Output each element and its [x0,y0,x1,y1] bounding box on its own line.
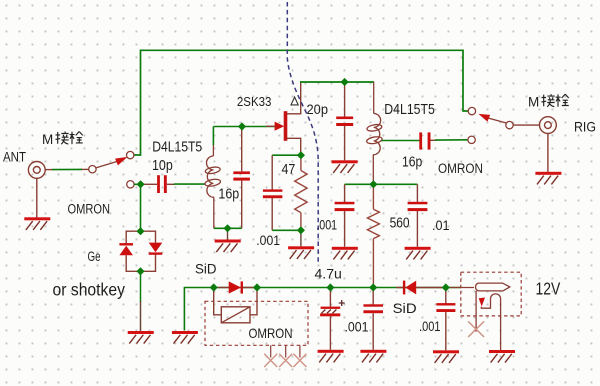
ground (4.7u) [318,350,344,363]
wire L2 tap to 16p [382,140,420,142]
node Ge top junction [136,227,144,235]
ground (input tank) [215,240,241,253]
capacitor C7 .01 [408,184,428,247]
capacitor C5 16p (output) [419,132,436,149]
label M接栓 (left) [42,132,83,148]
capacitor C4 20p [336,82,353,160]
drain marker triangle [291,97,298,105]
connector J2 RIG (M receptacle) [540,117,557,172]
node 4.7u junction [326,283,334,291]
diode D3 SiD (flyback) [218,281,257,293]
RX/TX boundary dashed curve [287,2,318,264]
relay unused contacts ticks [271,345,300,357]
relay unused contact X marks [264,354,306,367]
node relay junction right [253,283,261,291]
svg-text:12V: 12V [536,278,561,298]
svg-text:M: M [528,95,539,110]
12V plug unused X mark [468,321,484,337]
node supply rail junction (560) [369,180,377,188]
wire to source ground [300,230,302,246]
svg-text:560: 560 [390,215,410,231]
wire switch pole to RIG connector [513,124,539,126]
12V plug arrow contact [479,298,485,307]
ground (.01) [405,247,431,260]
12V plug body [450,283,510,291]
svg-text:10p: 10p [152,158,173,174]
svg-text:OMRON: OMRON [249,326,293,341]
ground (C10) [433,350,459,363]
12V power plug dashed enclosure [461,272,521,316]
svg-text:OMRON: OMRON [438,161,483,176]
wire lower throw to 10p node [134,183,141,185]
ground (20p) [332,160,358,173]
svg-text:SiD: SiD [195,261,217,276]
svg-text:Ge: Ge [88,249,101,264]
wire 16p to switch S2 [435,139,468,141]
wire supply node rail [345,183,418,185]
ground (rail left end) [172,331,198,344]
capacitor C6 .001 (drain decoupling) [335,184,355,247]
wire source to bias network [272,154,301,156]
svg-text:.001: .001 [345,319,369,334]
svg-text:SiD: SiD [393,301,417,316]
relay K1 coil [214,288,257,323]
wire drain rail [300,81,374,83]
wire L1 top to gate rail [212,127,214,146]
wire Ge bottom to ground [140,271,142,302]
wire top bypass rail [134,50,468,155]
svg-text:16p: 16p [402,155,422,171]
resistor R2 560 [367,184,379,287]
wire ANT to switch pole [52,168,82,170]
capacitor C3 .001 (source bypass) [263,155,283,230]
svg-text:20p: 20p [307,101,329,117]
svg-text:16p: 16p [218,187,239,203]
wire 10p to L1 tap [174,183,205,185]
svg-text:M: M [42,132,53,147]
svg-text:D4L15T5: D4L15T5 [384,102,435,118]
transistor Q1 2SK33 JFET [266,82,301,155]
node 12V input junction [442,283,450,291]
inductor L1 D4L15T5 (tapped coil) [204,144,220,228]
capacitor C8 4.7u electrolytic [320,288,345,350]
wire Ge diode branch [126,231,155,271]
svg-text:OMRON: OMRON [68,202,111,217]
svg-text:ANT: ANT [3,149,26,164]
capacitor C2 16p [233,127,250,229]
wire bottom supply rail [184,288,460,331]
node drain rail junction (20p) [341,78,349,86]
svg-text:.001: .001 [256,233,280,248]
ground (ANT connector) [24,217,50,230]
wire L1 bottom to ground [227,228,229,239]
ground (C9) [360,350,386,363]
switch S1 OMRON (ANT relay contact) [89,151,134,188]
capacitor C1 10p [141,175,175,193]
svg-text:47: 47 [282,162,296,178]
ground (RIG connector) [535,172,561,185]
wire 10p node down to Ge diode branch [140,184,142,231]
switch S2 OMRON (RIG relay contact) [468,107,513,143]
ground (source network) [288,246,314,259]
resistor R1 47 [295,155,307,230]
svg-text:2SK33: 2SK33 [237,95,272,109]
diode D4 SiD (supply isolation) [396,281,446,295]
svg-text:or shotkey: or shotkey [53,280,126,300]
connector J1 ANT (M receptacle) [28,162,88,218]
svg-text:D4L15T5: D4L15T5 [152,139,202,155]
node 10p input junction [137,180,145,188]
ground (Ge branch) [128,331,154,344]
node L1 bottom junction [223,224,231,232]
svg-text:.001: .001 [419,319,441,334]
capacitor C9 .001 (bottom mid) [363,288,383,350]
capacitor C10 .001 (12V input) [436,288,455,351]
ground (12V return) [489,350,515,363]
inductor L2 D4L15T5 (output coil) [366,82,382,184]
12V plug negative contact [476,291,501,350]
svg-text:.001: .001 [316,218,337,233]
node source network bottom junction [297,226,305,234]
wire source network bottom [272,229,301,231]
node source junction [297,151,305,159]
ground (.001 drain) [332,247,358,260]
node gate junction (16p top) [238,122,246,130]
label M接栓 (right) [528,94,569,110]
diode D2 Ge right (cathode down) [149,243,163,255]
node 560/.001 junction [369,283,377,291]
node Ge bottom junction [136,267,144,275]
node relay junction left [210,283,218,291]
wire gate rail [213,126,275,128]
svg-text:RIG: RIG [574,120,596,135]
relay K1 dashed enclosure [205,301,308,345]
diode D1 Ge left (cathode up) [119,243,133,255]
wire L1/16p bottom tie [214,227,242,229]
svg-text:4.7u: 4.7u [315,267,342,282]
svg-text:.01: .01 [432,218,450,233]
